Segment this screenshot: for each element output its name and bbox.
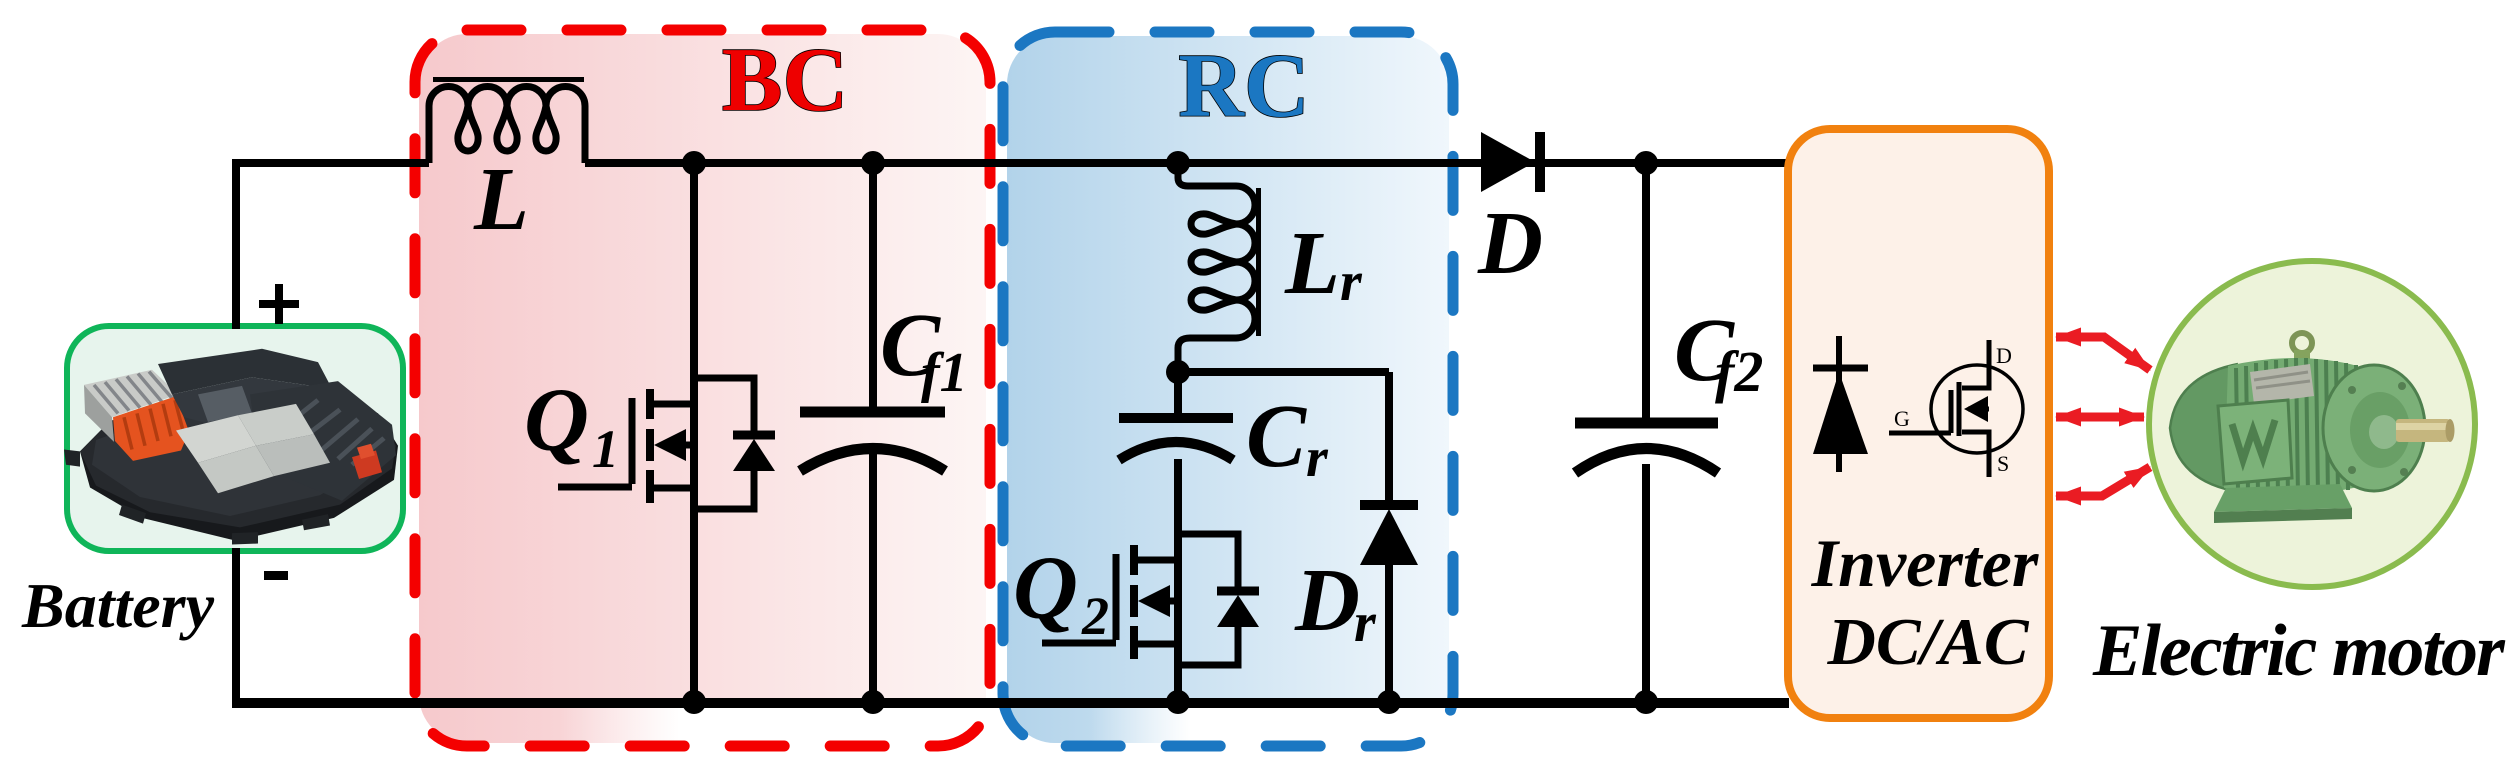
inverter MOSFET icon: [1889, 340, 2023, 477]
battery dark top box: [158, 349, 332, 395]
battery center light modules: [176, 415, 256, 463]
battery finned gray module: [84, 370, 178, 418]
junction Cf1 bottom: [861, 690, 885, 714]
svg-text:Q: Q: [524, 371, 589, 470]
RC dashed border: [1003, 32, 1453, 746]
svg-text:BC: BC: [722, 29, 848, 130]
svg-text:L: L: [473, 150, 529, 249]
svg-text:r: r: [1354, 592, 1377, 654]
capacitor Cf2 leads: [1642, 163, 1650, 702]
motor rear dome: [2170, 364, 2240, 492]
svg-text:f1: f1: [921, 342, 968, 404]
motor main ribbed body: [2224, 358, 2362, 495]
motor eye bolt: [2292, 333, 2312, 353]
minus terminal: [264, 571, 288, 580]
battery red connector: [352, 450, 382, 479]
white strip under bottom bus inside BC: [560, 707, 988, 745]
BC converter shaded region fill: [419, 34, 986, 743]
svg-text:L: L: [1284, 214, 1340, 313]
battery rear dark cover with ribs: [250, 381, 396, 501]
svg-text:f2: f2: [1715, 339, 1763, 404]
transistor Q2: [1042, 534, 1259, 665]
battery pack drawing: [64, 349, 398, 545]
junction Q1 source bottom: [682, 690, 706, 714]
svg-text:D: D: [1996, 343, 2012, 368]
svg-text:D: D: [1477, 194, 1543, 293]
svg-text:r: r: [1306, 427, 1329, 489]
BC dashed border: [415, 30, 990, 746]
svg-text:r: r: [1340, 251, 1363, 313]
battery orange module: [113, 396, 189, 461]
wire bottom bus: [232, 698, 1789, 708]
capacitor Cf1 vertical leads: [869, 163, 877, 702]
transistor Q1 drain-source line: [690, 163, 698, 702]
capacitor Cr leads: [1174, 372, 1182, 702]
motor nameplate: [2250, 364, 2314, 404]
inductor Lr coil: [1178, 163, 1255, 372]
diode Dr leads: [1385, 372, 1393, 702]
red arrow middle: [2056, 413, 2144, 422]
motor front end-bell: [2323, 365, 2425, 491]
wire left vertical bottom: [232, 548, 240, 702]
junction Q2 source bottom: [1166, 690, 1190, 714]
capacitor Cf1 plates: [800, 407, 945, 418]
battery box: [67, 326, 403, 551]
svg-text:D: D: [1294, 551, 1360, 650]
svg-text:2: 2: [1081, 586, 1109, 646]
junction Cf1 top: [861, 151, 885, 175]
diode D: [1481, 132, 1535, 192]
junction Cf2 top: [1634, 151, 1658, 175]
svg-text:RC: RC: [1178, 35, 1309, 136]
red arrow bottom: [2056, 467, 2150, 496]
wire top bus inductor to inverter: [585, 159, 1789, 167]
capacitor Cr plates: [1119, 413, 1233, 423]
svg-text:G: G: [1894, 406, 1910, 431]
svg-text:Electric motor: Electric motor: [2092, 610, 2506, 692]
inductor Lr core bar: [1256, 188, 1261, 336]
svg-text:Inverter: Inverter: [1811, 525, 2039, 601]
motor terminal box: [2218, 400, 2292, 484]
motor circle: [2149, 261, 2475, 587]
inverter diode: [1813, 336, 1868, 472]
wire top bus battery to inductor: [232, 159, 429, 167]
svg-text:Battery: Battery: [21, 570, 215, 641]
junction Cf2 bottom: [1634, 690, 1658, 714]
red arrow top: [2056, 337, 2150, 370]
wire node Lr/Cr/Dr: [1178, 368, 1389, 376]
capacitor Cf2 plates: [1575, 418, 1718, 429]
transistor Q1: [558, 378, 775, 509]
junction node Lr/Cr/Dr: [1166, 360, 1190, 384]
inductor L core bar: [433, 77, 584, 82]
electric motor drawing: [2170, 333, 2455, 523]
battery feet: [64, 450, 80, 467]
svg-text:Q: Q: [1013, 539, 1078, 638]
inductor L coil: [429, 87, 585, 164]
junction Q1 drain top: [682, 151, 706, 175]
junction Dr bottom: [1377, 690, 1401, 714]
junction Lr top: [1166, 151, 1190, 175]
inverter box: [1788, 129, 2049, 718]
battery tray top face: [92, 404, 384, 516]
motor base: [2214, 484, 2352, 512]
motor shaft: [2396, 419, 2450, 442]
svg-text:C: C: [1246, 387, 1307, 486]
battery lower rim shadow: [80, 393, 398, 541]
plus terminal: [259, 300, 299, 308]
diode Dr: [1360, 500, 1418, 510]
wire left vertical top: [232, 163, 240, 329]
svg-text:S: S: [1997, 451, 2009, 476]
svg-text:1: 1: [592, 419, 619, 479]
RC converter shaded region fill: [1007, 36, 1449, 743]
battery chassis tray: [80, 393, 396, 528]
white strip under bottom bus inside RC: [1090, 707, 1450, 745]
svg-text:DC/AC: DC/AC: [1826, 605, 2029, 679]
